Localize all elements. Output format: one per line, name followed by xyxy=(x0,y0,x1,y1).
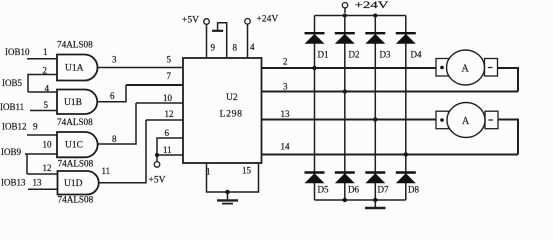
svg-text:IOB9: IOB9 xyxy=(1,147,21,157)
motor M1 xyxy=(436,50,498,85)
wire column D2/D6 xyxy=(344,16,346,201)
svg-text:13: 13 xyxy=(33,178,43,188)
wire column D1/D5 xyxy=(314,16,316,201)
wire U1D out 11 to U2 pin 12 xyxy=(99,109,183,183)
svg-text:D1: D1 xyxy=(318,50,329,60)
svg-text:IOB12: IOB12 xyxy=(2,122,27,132)
wire U2 pin 3 to motor M1 - xyxy=(262,82,519,94)
svg-text:6: 6 xyxy=(165,128,170,138)
svg-text:7: 7 xyxy=(167,71,172,81)
svg-text:3: 3 xyxy=(112,55,117,65)
svg-text:U1B: U1B xyxy=(64,98,82,108)
IC U2 L298 xyxy=(183,58,262,163)
wire U1B out 6 to U2 pin 7 xyxy=(97,71,183,102)
power +24V (pin 4 top) xyxy=(245,15,279,59)
svg-text:+24V: +24V xyxy=(257,15,279,25)
wire U2 pin 2 to motor M1 + xyxy=(262,57,437,71)
wire column D4/D8 xyxy=(405,16,407,201)
power +24V rail (diode cathodes) xyxy=(315,1,406,18)
svg-text:74ALS08: 74ALS08 xyxy=(58,159,94,169)
svg-text:L298: L298 xyxy=(220,109,243,120)
AND gate U1C xyxy=(57,132,98,157)
svg-text:U1A: U1A xyxy=(65,64,84,74)
svg-text:D7: D7 xyxy=(378,185,389,195)
svg-text:6: 6 xyxy=(110,91,115,101)
svg-text:IOB13: IOB13 xyxy=(1,178,26,188)
power +5V (enable pins 6,11) xyxy=(149,128,184,186)
node IOB12 xyxy=(2,122,57,136)
svg-text:4: 4 xyxy=(250,42,255,52)
svg-text:12: 12 xyxy=(165,109,174,119)
svg-text:1: 1 xyxy=(43,47,48,57)
ground (pin 8 top) xyxy=(212,23,238,58)
power +5V (pin 9 top) xyxy=(182,16,216,59)
wire U1C out 8 to U2 pin 10 xyxy=(98,93,184,144)
diode D6 xyxy=(335,173,360,195)
wire U1A out 3 to U2 pin 5 xyxy=(98,55,184,68)
svg-text:A: A xyxy=(462,64,470,75)
svg-text:9: 9 xyxy=(211,43,216,53)
svg-text:+5V: +5V xyxy=(182,16,199,26)
svg-text:U1D: U1D xyxy=(64,179,83,189)
svg-text:14: 14 xyxy=(281,142,291,152)
motor M2 xyxy=(436,103,498,138)
svg-text:9: 9 xyxy=(33,122,38,132)
diode D1 xyxy=(305,33,329,59)
svg-text:8: 8 xyxy=(112,134,117,144)
svg-text:D8: D8 xyxy=(408,185,419,195)
AND gate U1A xyxy=(57,55,98,81)
wire motor M1 - return to pin 3 xyxy=(498,68,519,92)
svg-text:IOB10: IOB10 xyxy=(5,47,30,57)
svg-text:D6: D6 xyxy=(348,185,359,195)
node IOB5 xyxy=(2,66,57,94)
svg-text:5: 5 xyxy=(167,55,172,65)
node IOB9 xyxy=(1,140,58,175)
svg-text:74ALS08: 74ALS08 xyxy=(57,117,93,127)
diode D2 xyxy=(335,33,360,59)
diode D8 xyxy=(396,173,420,195)
svg-text:IOB11: IOB11 xyxy=(0,102,24,112)
node IOB13 xyxy=(1,178,58,190)
svg-text:D2: D2 xyxy=(349,50,360,60)
svg-text:11: 11 xyxy=(102,166,111,176)
svg-text:2: 2 xyxy=(283,57,288,67)
diode D5 xyxy=(305,173,329,195)
wire column D3/D7 xyxy=(374,16,376,201)
svg-text:10: 10 xyxy=(43,140,53,150)
svg-text:11: 11 xyxy=(163,145,172,155)
svg-text:74ALS08: 74ALS08 xyxy=(57,40,93,50)
svg-text:15: 15 xyxy=(242,166,252,176)
svg-text:3: 3 xyxy=(283,82,288,92)
svg-text:U1C: U1C xyxy=(65,141,83,151)
AND gate U1D xyxy=(58,171,99,195)
wire U2 pin 14 to motor M2 - xyxy=(262,142,519,157)
node IOB10 xyxy=(5,47,57,59)
svg-text:10: 10 xyxy=(163,93,173,103)
svg-text:74ALS08: 74ALS08 xyxy=(58,195,94,205)
svg-text:D3: D3 xyxy=(380,50,391,60)
node IOB11 xyxy=(0,100,57,112)
diode D4 xyxy=(396,33,422,59)
svg-text:+24V: +24V xyxy=(355,1,389,11)
wire U2 pin 13 to motor M2 + xyxy=(262,109,437,122)
svg-text:12: 12 xyxy=(43,163,52,173)
svg-text:13: 13 xyxy=(281,109,291,119)
svg-text:+5V: +5V xyxy=(149,176,166,186)
svg-text:D4: D4 xyxy=(411,50,422,60)
wire motor M2 - return to pin 14 xyxy=(498,120,518,155)
svg-text:A: A xyxy=(462,116,470,127)
svg-text:IOB5: IOB5 xyxy=(2,78,22,88)
ground (bottom rail) xyxy=(365,200,386,208)
AND gate U1B xyxy=(57,90,97,115)
diode D3 xyxy=(365,33,391,59)
svg-text:8: 8 xyxy=(233,43,238,53)
svg-text:5: 5 xyxy=(44,100,49,110)
diode D7 xyxy=(365,173,389,195)
svg-text:D5: D5 xyxy=(318,185,329,195)
ground (pins 1,15 bottom) xyxy=(206,163,259,204)
svg-text:U2: U2 xyxy=(226,93,238,103)
wire bottom rail (diode anodes) xyxy=(315,198,406,202)
